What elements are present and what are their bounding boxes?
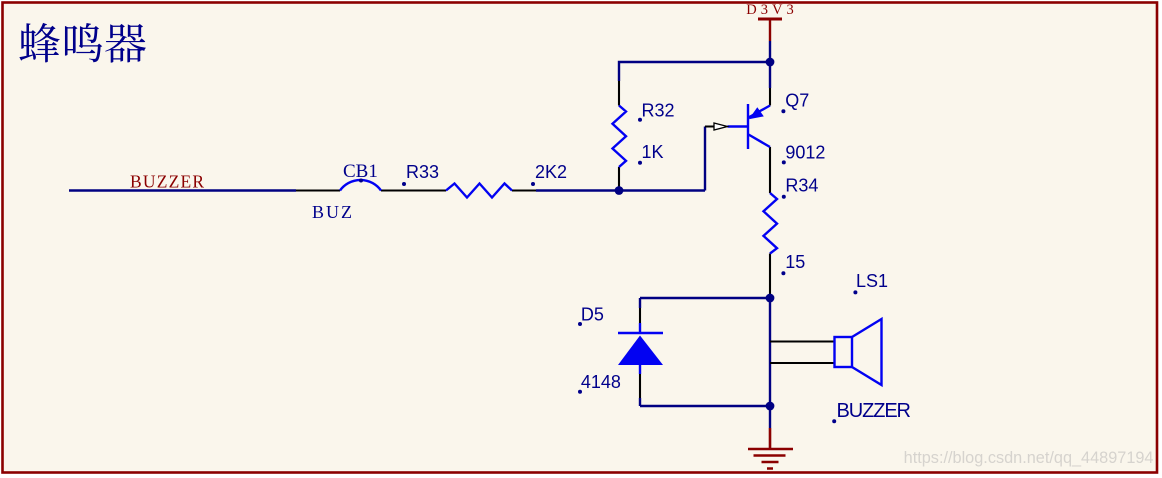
svg-text:LS1: LS1 bbox=[856, 271, 888, 291]
svg-text:R32: R32 bbox=[642, 100, 675, 120]
svg-text:D3V3: D3V3 bbox=[746, 2, 797, 18]
svg-text:https://blog.csdn.net/qq_44897: https://blog.csdn.net/qq_44897194 bbox=[904, 449, 1154, 467]
svg-text:BUZZER: BUZZER bbox=[837, 400, 911, 422]
svg-text:1K: 1K bbox=[642, 142, 664, 162]
svg-text:BUZZER: BUZZER bbox=[130, 172, 205, 192]
svg-text:R34: R34 bbox=[785, 176, 818, 196]
svg-text:D5: D5 bbox=[581, 305, 604, 325]
svg-text:R33: R33 bbox=[406, 162, 439, 182]
svg-text:BUZ: BUZ bbox=[312, 202, 354, 222]
svg-text:4148: 4148 bbox=[581, 372, 621, 392]
svg-text:15: 15 bbox=[785, 252, 805, 272]
svg-text:CB1: CB1 bbox=[343, 161, 378, 182]
svg-text:Q7: Q7 bbox=[785, 91, 809, 111]
svg-text:9012: 9012 bbox=[785, 142, 825, 162]
svg-text:2K2: 2K2 bbox=[535, 162, 567, 182]
